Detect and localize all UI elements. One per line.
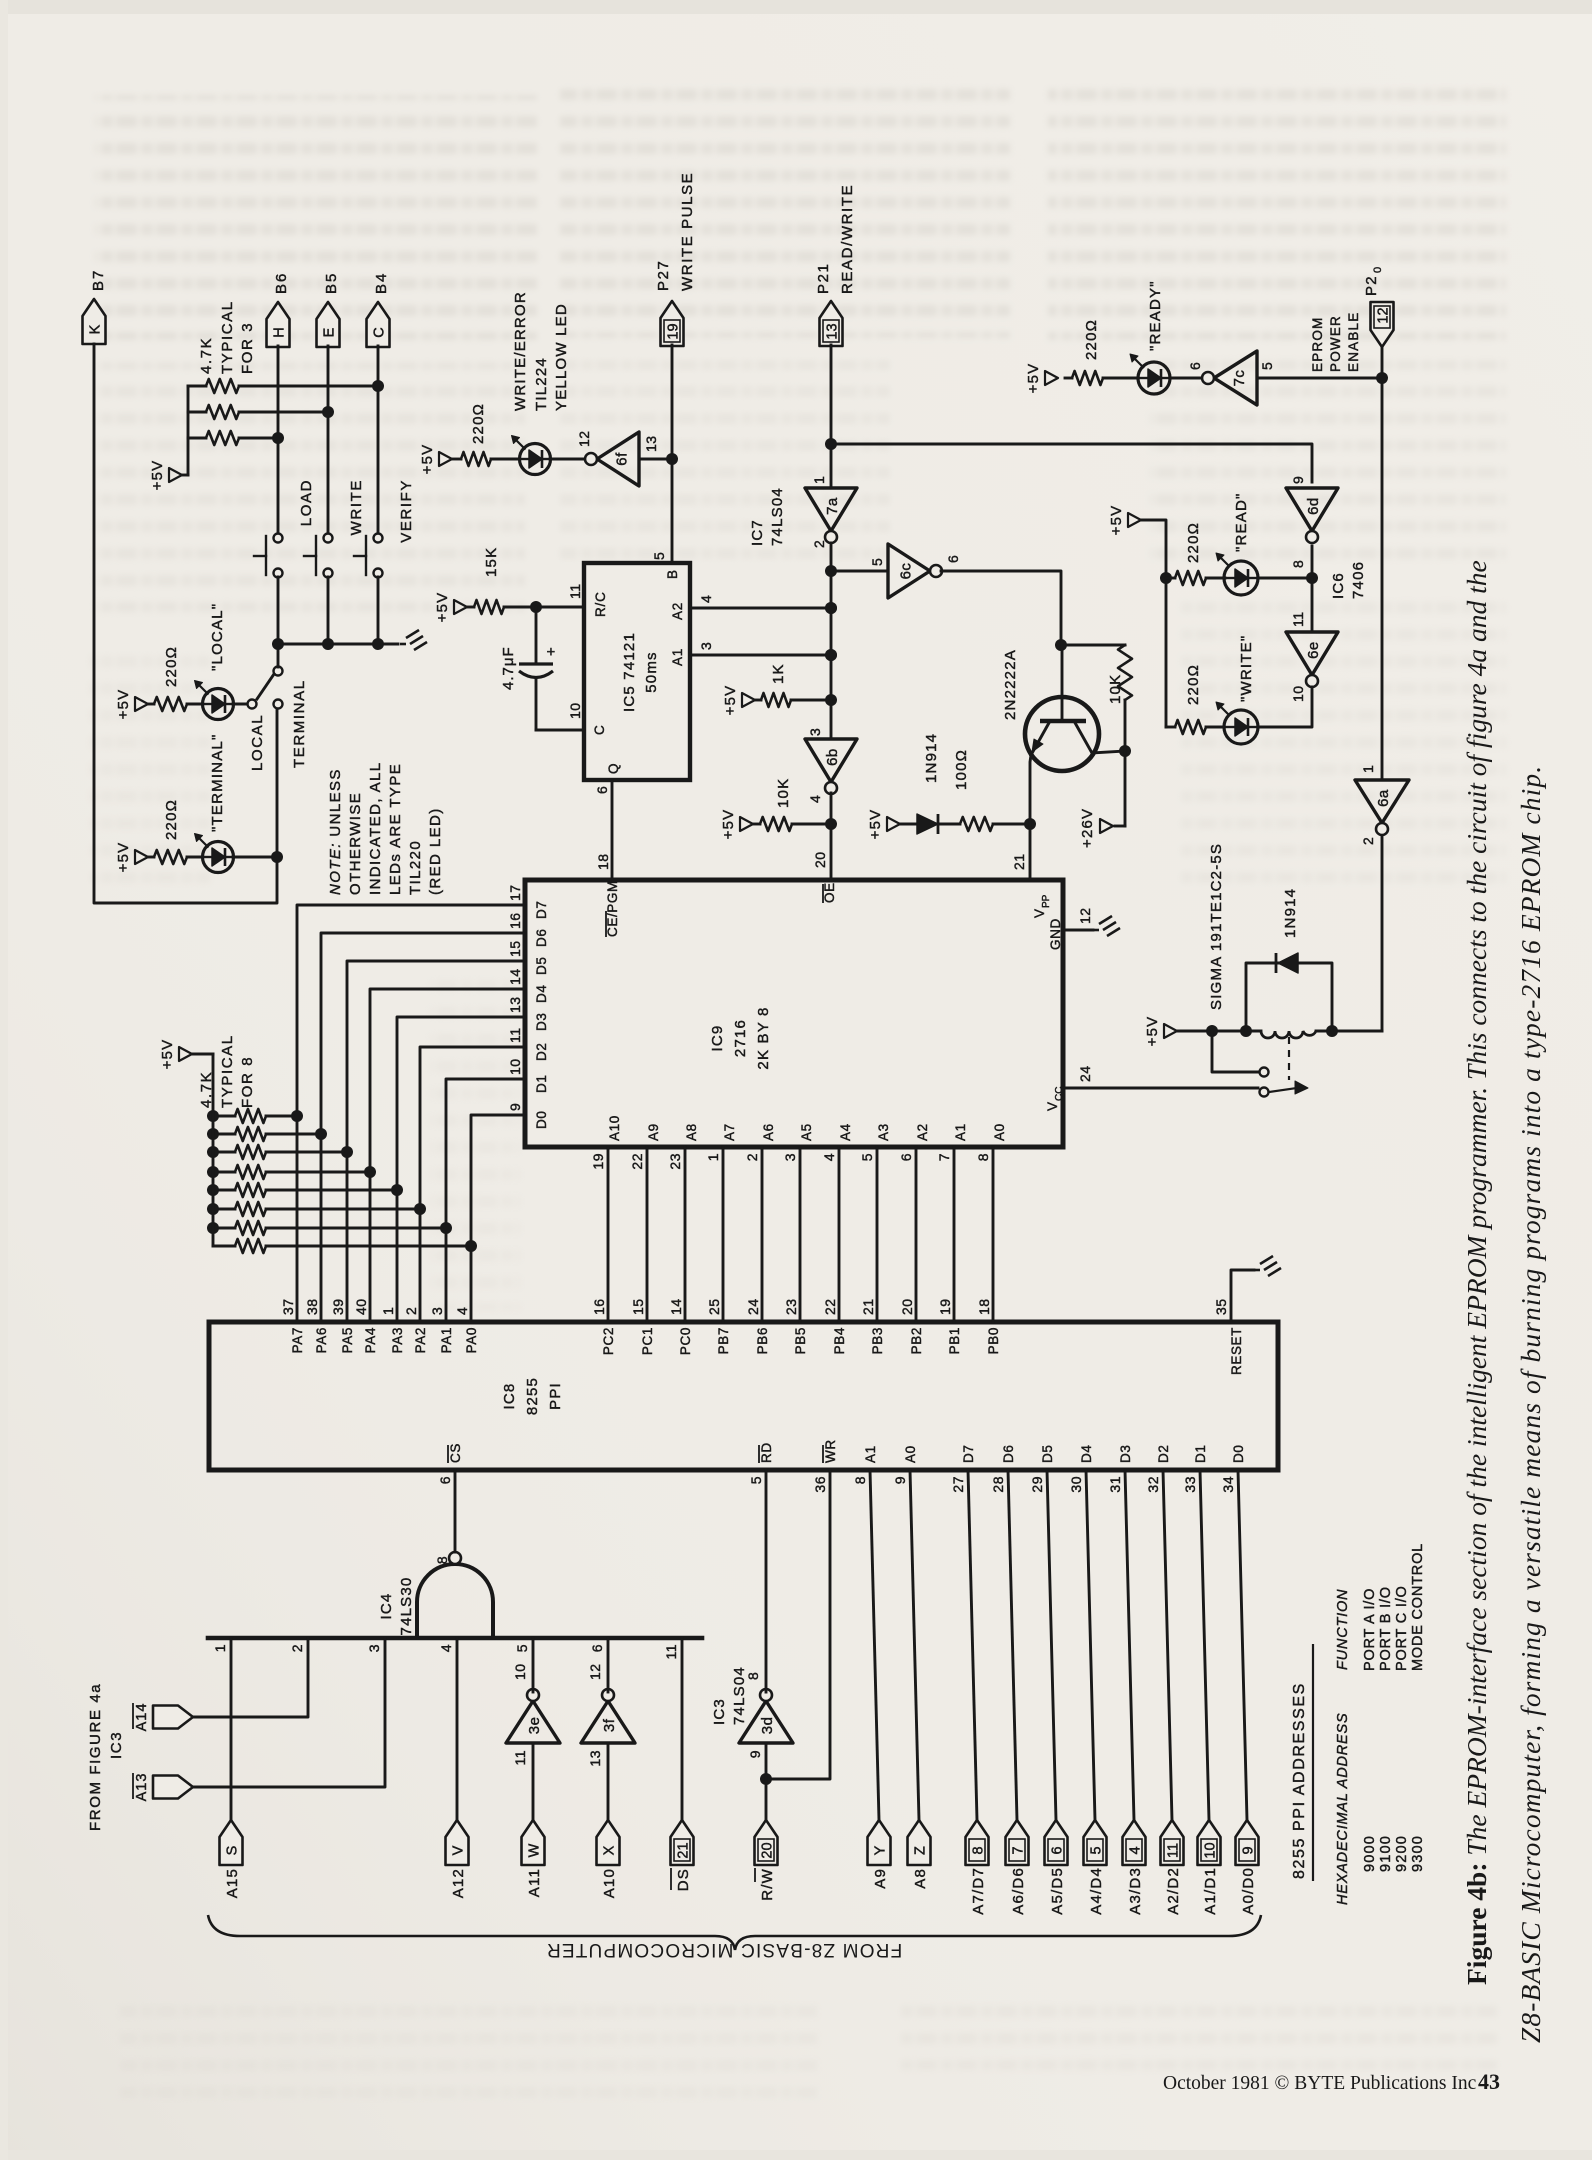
svg-text:16: 16	[591, 1298, 607, 1315]
pin 19 IC8 PB1	[937, 1298, 962, 1354]
caption figure 4b	[1461, 560, 1546, 2043]
svg-text:6d: 6d	[1305, 497, 1322, 515]
label EPROM POWER ENABLE	[1310, 312, 1361, 372]
svg-text:13: 13	[825, 323, 841, 339]
wire bus D6	[315, 933, 525, 1322]
svg-text:220Ω: 220Ω	[1083, 319, 1100, 360]
pin 3 IC9 A5 name	[782, 1123, 814, 1161]
svg-text:INDICATED, ALL: INDICATED, ALL	[367, 761, 384, 895]
wire 6a out to relay	[1381, 836, 1384, 1031]
svg-text:A13: A13	[134, 1773, 150, 1802]
svg-text:12: 12	[587, 1663, 603, 1680]
wire A7/D7 to IC8	[968, 1470, 977, 1820]
svg-text:19: 19	[937, 1298, 953, 1315]
svg-text:30: 30	[1068, 1476, 1084, 1493]
LED WRITE	[1216, 702, 1258, 744]
wire Vcc to relay contact	[1063, 1065, 1258, 1088]
resistor 220 LOCAL	[148, 646, 202, 711]
svg-text:2K BY 8: 2K BY 8	[755, 1006, 772, 1069]
pin 40 IC8 PA4	[353, 1298, 378, 1353]
svg-text:A1: A1	[670, 648, 685, 666]
svg-text:2: 2	[289, 1644, 305, 1652]
wire IC4 out to CS	[454, 1470, 457, 1552]
svg-text:11: 11	[512, 1750, 528, 1766]
svg-text:43: 43	[1478, 2069, 1500, 2094]
svg-text:21: 21	[860, 1298, 876, 1315]
wire bus D2	[414, 1047, 525, 1322]
resistor 15K	[467, 547, 536, 614]
wire IC5 A2 to bus	[690, 595, 837, 614]
svg-text:3: 3	[782, 1153, 798, 1161]
wire P20 to 6a	[1376, 347, 1388, 780]
switch LOCAL/TERMINAL pole	[257, 648, 283, 699]
svg-text:A1/D1: A1/D1	[1202, 1867, 1219, 1915]
svg-text:D5: D5	[534, 957, 549, 975]
pin 37 IC8 PA7	[280, 1298, 305, 1353]
wire K to switch block	[94, 344, 283, 903]
svg-text:"READY": "READY"	[1147, 280, 1164, 351]
svg-text:9200: 9200	[1394, 1835, 1410, 1872]
pin 23 IC8 PB5	[783, 1298, 808, 1354]
label 4.7K TYPICAL FOR 8	[198, 1034, 256, 1108]
connector RW	[755, 1820, 778, 1901]
svg-text:6: 6	[594, 786, 610, 794]
svg-text:+5V: +5V	[1108, 505, 1125, 536]
svg-text:B: B	[665, 569, 680, 579]
label IC7 74LS04	[749, 487, 786, 546]
svg-text:+5V: +5V	[722, 685, 739, 716]
svg-text:4.7K: 4.7K	[198, 337, 215, 374]
svg-text:220Ω: 220Ω	[163, 646, 180, 687]
wire +5V feed	[1141, 520, 1172, 727]
pin 30 IC8 D4 name	[1068, 1445, 1094, 1493]
svg-text:TIL220: TIL220	[407, 840, 424, 895]
svg-text:VERIFY: VERIFY	[398, 479, 415, 543]
pin 31 IC8 D3 name	[1107, 1445, 1133, 1493]
svg-text:B4: B4	[373, 272, 390, 294]
wire A12 to IC4	[456, 1638, 459, 1820]
svg-text:Z8-BASIC Microcomputer, formin: Z8-BASIC Microcomputer, forming a versat…	[1515, 765, 1546, 2043]
wire RW to 3d	[765, 1743, 768, 1820]
pin 11 IC4	[663, 1644, 679, 1660]
svg-text:PA0: PA0	[464, 1327, 479, 1353]
svg-text:22: 22	[629, 1153, 645, 1170]
IC U IC5 74121	[584, 563, 690, 780]
svg-text:TYPICAL: TYPICAL	[219, 1034, 236, 1108]
svg-text:7: 7	[1011, 1846, 1027, 1854]
pin 22 IC9 A9 name	[629, 1123, 661, 1169]
svg-text:37: 37	[280, 1298, 296, 1315]
svg-text:TERMINAL: TERMINAL	[291, 679, 308, 768]
svg-text:FOR 3: FOR 3	[239, 322, 256, 374]
pin 10 IC9 D1 name	[507, 1058, 549, 1093]
svg-text:11: 11	[1290, 611, 1306, 627]
wire 6b out to OE	[825, 793, 837, 878]
wire A13 to IC4	[193, 1638, 385, 1787]
pin 24 IC8 PB6	[745, 1298, 770, 1354]
switch contact LOCAL	[248, 700, 257, 709]
resistor 10K collector	[1062, 645, 1132, 751]
capacitor 4.7uF	[500, 607, 584, 730]
resistor 4.7K R2	[188, 405, 322, 419]
svg-text:27: 27	[950, 1476, 966, 1493]
svg-text:10: 10	[567, 702, 583, 719]
svg-text:35: 35	[1213, 1298, 1229, 1315]
svg-text:PB1: PB1	[947, 1327, 962, 1354]
svg-text:9100: 9100	[1378, 1835, 1394, 1872]
LED READY	[1130, 354, 1202, 394]
pin 9 IC9 D0 name	[507, 1103, 549, 1129]
pin 8 IC8 A1 name	[852, 1445, 878, 1484]
svg-text:7a: 7a	[824, 497, 841, 515]
svg-text:2: 2	[403, 1307, 419, 1315]
connector A12	[446, 1820, 469, 1898]
label WRITE LED	[1238, 635, 1255, 702]
svg-text:5: 5	[651, 552, 667, 560]
pin 20 IC8 PB2	[899, 1298, 924, 1354]
svg-text:IC8: IC8	[501, 1383, 518, 1410]
svg-text:A10: A10	[601, 1868, 618, 1898]
svg-text:PA5: PA5	[340, 1327, 355, 1353]
svg-text:6: 6	[589, 1644, 605, 1652]
svg-text:D3: D3	[1118, 1445, 1133, 1463]
resistor 220 TERMINAL	[148, 799, 202, 864]
wire A10 to 3f	[607, 1743, 610, 1820]
wire PC1 to IC9	[646, 1147, 649, 1322]
brace from Z8-BASIC microcomputer	[208, 1915, 1261, 1950]
svg-text:39: 39	[330, 1298, 346, 1315]
svg-text:V: V	[1032, 909, 1047, 918]
svg-text:A2: A2	[915, 1123, 930, 1141]
svg-text:C: C	[592, 724, 607, 735]
wire bus D3	[391, 1017, 525, 1322]
svg-text:15: 15	[630, 1298, 646, 1315]
resistor 4.7K D3 pullup	[207, 1183, 393, 1197]
svg-text:PA7: PA7	[290, 1327, 305, 1353]
svg-text:IC6: IC6	[1330, 572, 1347, 599]
wire A9 to IC8 A1	[870, 1470, 879, 1820]
relay contact fixed	[1212, 1031, 1269, 1077]
svg-text:2: 2	[1360, 837, 1376, 845]
svg-text:12: 12	[576, 430, 592, 447]
svg-text:10: 10	[1290, 685, 1306, 702]
pin 9 IC8 A0 name	[892, 1445, 918, 1484]
svg-text:DS: DS	[675, 1868, 692, 1891]
svg-text:4: 4	[821, 1153, 837, 1161]
svg-text:PA3: PA3	[390, 1327, 405, 1353]
svg-text:IC3: IC3	[711, 1698, 728, 1725]
pin 21 IC8 PB3	[860, 1298, 885, 1354]
power +26V	[1079, 751, 1125, 848]
svg-text:E: E	[322, 327, 338, 337]
connector A13	[133, 1773, 193, 1802]
power +5V x8 rail	[159, 1039, 192, 1070]
svg-text:19: 19	[666, 323, 682, 339]
pin 38 IC8 PA6	[304, 1298, 329, 1353]
svg-text:3: 3	[807, 728, 823, 736]
svg-text:13: 13	[587, 1750, 603, 1767]
svg-text:A1: A1	[953, 1123, 968, 1141]
wire DS to IC4	[681, 1638, 684, 1820]
label READ LED	[1233, 492, 1250, 552]
svg-text:A5: A5	[799, 1123, 814, 1141]
svg-text:X: X	[602, 1845, 618, 1855]
svg-text:4: 4	[454, 1307, 470, 1315]
svg-text:D5: D5	[1040, 1445, 1055, 1463]
svg-text:R/W: R/W	[759, 1868, 776, 1901]
svg-text:7: 7	[936, 1153, 952, 1161]
op-amp 7c inverter	[1187, 351, 1275, 405]
svg-text:ENABLE: ENABLE	[1346, 312, 1361, 372]
switch WRITE	[304, 479, 365, 644]
power +5V vpp clamp	[867, 809, 900, 840]
svg-text:D7: D7	[961, 1445, 976, 1463]
wire E line	[322, 346, 334, 534]
resistor 4.7K D2 pullup	[207, 1202, 416, 1216]
connector P21	[815, 184, 856, 346]
svg-text:11: 11	[1166, 1843, 1182, 1858]
svg-text:6b: 6b	[824, 748, 841, 766]
op-amp 6d inverter	[1286, 476, 1338, 568]
svg-text:7c: 7c	[1231, 370, 1248, 387]
svg-text:PB2: PB2	[909, 1327, 924, 1354]
svg-text:2716: 2716	[732, 1019, 749, 1057]
svg-text:PB3: PB3	[870, 1327, 885, 1354]
svg-text:RESET: RESET	[1229, 1327, 1244, 1375]
svg-text:23: 23	[783, 1298, 799, 1315]
svg-text:A3: A3	[876, 1123, 891, 1141]
op-amp 3d inverter	[739, 1672, 793, 1759]
op-amp 6a inverter	[1355, 765, 1409, 845]
svg-text:13: 13	[507, 996, 523, 1013]
svg-text:1N914: 1N914	[1282, 888, 1299, 938]
svg-text:4: 4	[698, 595, 714, 603]
svg-text:8: 8	[971, 1846, 987, 1854]
svg-text:4: 4	[438, 1644, 454, 1652]
label WRITE/ERROR LED	[512, 291, 570, 411]
resistor 220 WRITE	[1166, 664, 1224, 734]
pin 6 IC9 A2 name	[898, 1123, 930, 1161]
svg-text:FUNCTION: FUNCTION	[1335, 1589, 1351, 1670]
svg-text:RD: RD	[759, 1442, 774, 1463]
svg-text:A1: A1	[863, 1445, 878, 1463]
svg-text:1: 1	[212, 1644, 228, 1652]
resistor 1K	[755, 663, 831, 707]
svg-text:D7: D7	[534, 901, 549, 919]
connector A5/D5	[1045, 1820, 1068, 1915]
svg-text:220Ω: 220Ω	[1185, 664, 1202, 705]
svg-text:21: 21	[1011, 853, 1027, 870]
svg-text:6: 6	[898, 1153, 914, 1161]
wire 4.7K rail	[182, 386, 188, 475]
svg-text:2: 2	[744, 1153, 760, 1161]
pin 22 IC8 PB4	[822, 1298, 847, 1354]
svg-text:+5V: +5V	[434, 592, 451, 623]
power +5V ready	[1025, 363, 1058, 394]
wire 6c out to transistor base	[941, 571, 1067, 651]
pin 15 IC8 PC1	[630, 1298, 655, 1355]
svg-text:34: 34	[1220, 1476, 1236, 1493]
power +5V relay	[1144, 1016, 1177, 1047]
svg-text:33: 33	[1182, 1476, 1198, 1493]
label IC6 7406	[1330, 561, 1367, 599]
switch contact TERMINAL	[274, 700, 283, 709]
svg-text:6c: 6c	[898, 563, 915, 580]
wire switch common rail	[272, 638, 398, 650]
svg-text:+5V: +5V	[419, 444, 436, 475]
pin 28 IC8 D6 name	[990, 1445, 1016, 1493]
svg-text:P2: P2	[1363, 275, 1380, 296]
svg-text:A2/D2: A2/D2	[1165, 1867, 1182, 1915]
svg-text:D3: D3	[534, 1013, 549, 1031]
svg-text:D6: D6	[534, 929, 549, 947]
svg-text:OTHERWISE: OTHERWISE	[347, 792, 364, 895]
svg-text:D2: D2	[1156, 1445, 1171, 1463]
svg-text:V: V	[451, 1845, 467, 1855]
svg-text:A5/D5: A5/D5	[1049, 1867, 1066, 1915]
svg-text:3: 3	[698, 642, 714, 650]
svg-text:A7: A7	[722, 1123, 737, 1141]
wire P21 branch to 6d	[831, 444, 1312, 482]
svg-text:7406: 7406	[1350, 561, 1367, 599]
pin 5 IC9 A3 name	[859, 1123, 891, 1161]
switch LOAD	[254, 479, 315, 644]
svg-text:14: 14	[507, 968, 523, 985]
svg-text:READ/WRITE: READ/WRITE	[839, 184, 856, 294]
junction vpp node	[1024, 818, 1036, 830]
op-amp 3f inverter	[581, 1663, 635, 1766]
wire PB2 to IC9	[915, 1147, 918, 1322]
label TERMINAL	[291, 679, 308, 768]
gate U IC4 74LS30 NAND	[417, 1552, 493, 1638]
pin 5 B	[651, 459, 672, 563]
svg-text:PORT A I/O: PORT A I/O	[1362, 1588, 1378, 1671]
diode 1N914 relay	[1246, 888, 1332, 1031]
wire A0/D0 to IC8	[1238, 1470, 1247, 1820]
svg-text:PA6: PA6	[314, 1327, 329, 1353]
wire PB4 to IC9	[838, 1147, 841, 1322]
pin 4 IC4	[438, 1644, 454, 1652]
pin 36 IC8 WR name	[812, 1439, 838, 1492]
svg-text:WRITE/ERROR: WRITE/ERROR	[512, 291, 529, 411]
svg-text:"TERMINAL": "TERMINAL"	[209, 734, 226, 833]
pin 1 IC4	[212, 1644, 228, 1652]
connector A11	[522, 1820, 545, 1897]
svg-text:YELLOW LED: YELLOW LED	[553, 303, 570, 411]
relay contact moving	[1260, 1081, 1309, 1097]
svg-text:POWER: POWER	[1328, 315, 1343, 372]
svg-text:11: 11	[507, 1027, 523, 1043]
LED TERMINAL	[195, 834, 274, 873]
svg-text:P27: P27	[655, 260, 672, 292]
svg-text:A0: A0	[992, 1123, 1007, 1141]
IC U IC8 8255 PPI	[209, 1322, 1278, 1470]
wire PB5 to IC9	[799, 1147, 802, 1322]
svg-text:220Ω: 220Ω	[1185, 522, 1202, 563]
power +5V TERMINAL	[115, 842, 148, 873]
svg-text:1: 1	[705, 1153, 721, 1161]
pin 5 IC8 RD name	[748, 1442, 774, 1484]
op-amp 7a inverter	[805, 476, 857, 548]
svg-text:2N2222A: 2N2222A	[1002, 649, 1019, 720]
svg-text:A6/D6: A6/D6	[1010, 1867, 1027, 1915]
svg-text:FROM Z8-BASIC MICROCOMPUTER: FROM Z8-BASIC MICROCOMPUTER	[546, 1939, 902, 1960]
pin 35 IC8 RESET	[1213, 1270, 1254, 1375]
wire base to 6c node	[1061, 645, 1064, 721]
connector A15	[220, 1820, 243, 1898]
pin 11 R/C	[530, 583, 584, 613]
svg-text:A9: A9	[646, 1123, 661, 1141]
svg-text:A4/D4: A4/D4	[1088, 1867, 1105, 1915]
wire PB3 to IC9	[876, 1147, 879, 1322]
svg-text:(RED LED): (RED LED)	[427, 807, 444, 895]
pin 1 IC8 PA3	[380, 1307, 405, 1354]
pin 2 IC8 PA2	[403, 1307, 428, 1354]
svg-text:20: 20	[899, 1298, 915, 1315]
svg-text:+5V: +5V	[159, 1039, 176, 1070]
svg-text:+5V: +5V	[149, 460, 166, 491]
pin 13 IC9 D3 name	[507, 996, 549, 1031]
wire 6d node to 6e	[1311, 578, 1314, 632]
svg-text:Figure 4b: The EPROM-interface: Figure 4b: The EPROM-interface section o…	[1461, 560, 1492, 1985]
label LOCAL	[249, 714, 266, 771]
connector DS	[671, 1820, 694, 1891]
relay K1 coil	[1177, 1025, 1382, 1038]
svg-text:D4: D4	[1079, 1445, 1094, 1463]
wire 7a out to 6b	[825, 543, 837, 739]
svg-text:3f: 3f	[601, 1718, 618, 1732]
resistor 4.7K R1	[188, 379, 372, 393]
svg-text:A0: A0	[903, 1445, 918, 1463]
svg-text:8: 8	[1290, 560, 1306, 568]
wire A6/D6 to IC8	[1008, 1470, 1017, 1820]
svg-text:A14: A14	[134, 1703, 150, 1732]
relay actuator dashed	[1288, 1037, 1290, 1080]
svg-text:PB0: PB0	[986, 1327, 1001, 1354]
wire 3d out to RD	[765, 1470, 768, 1692]
svg-text:28: 28	[990, 1476, 1006, 1493]
svg-text:PB7: PB7	[716, 1327, 731, 1354]
wire bus D5	[341, 961, 525, 1322]
svg-text:C: C	[372, 327, 388, 337]
svg-text:24: 24	[1077, 1065, 1093, 1082]
pin 15 IC9 D5 name	[507, 940, 549, 975]
wire collector node	[1092, 745, 1131, 757]
pin 19 IC9 A10 name	[590, 1115, 622, 1169]
wire IC5 A1 to bus	[690, 642, 837, 661]
wire A8 to IC8 A0	[910, 1470, 919, 1820]
resistor 4.7K D5 pullup	[207, 1145, 343, 1159]
svg-text:PB4: PB4	[832, 1327, 847, 1354]
svg-text:S: S	[225, 1846, 241, 1856]
pin 7 IC9 A1 name	[936, 1123, 968, 1161]
svg-text:Q: Q	[606, 763, 621, 774]
wire A3/D3 to IC8	[1125, 1470, 1134, 1820]
wire 4.7K x8 rail	[192, 1054, 213, 1246]
svg-text:6: 6	[1187, 362, 1203, 370]
wire IC5 Q to CE/PGM	[594, 780, 612, 878]
pin 29 IC8 D5 name	[1029, 1445, 1055, 1493]
svg-text:R/C: R/C	[593, 591, 608, 617]
svg-text:IC4: IC4	[378, 1593, 395, 1620]
svg-text:5: 5	[859, 1153, 875, 1161]
power +5V pullup rail	[149, 460, 182, 491]
wire A14 to IC4	[193, 1638, 308, 1717]
pin 2 IC4	[289, 1644, 305, 1652]
svg-text:0: 0	[1372, 267, 1384, 273]
pin 23 IC9 A8 name	[667, 1123, 699, 1169]
svg-text:3: 3	[429, 1307, 445, 1315]
